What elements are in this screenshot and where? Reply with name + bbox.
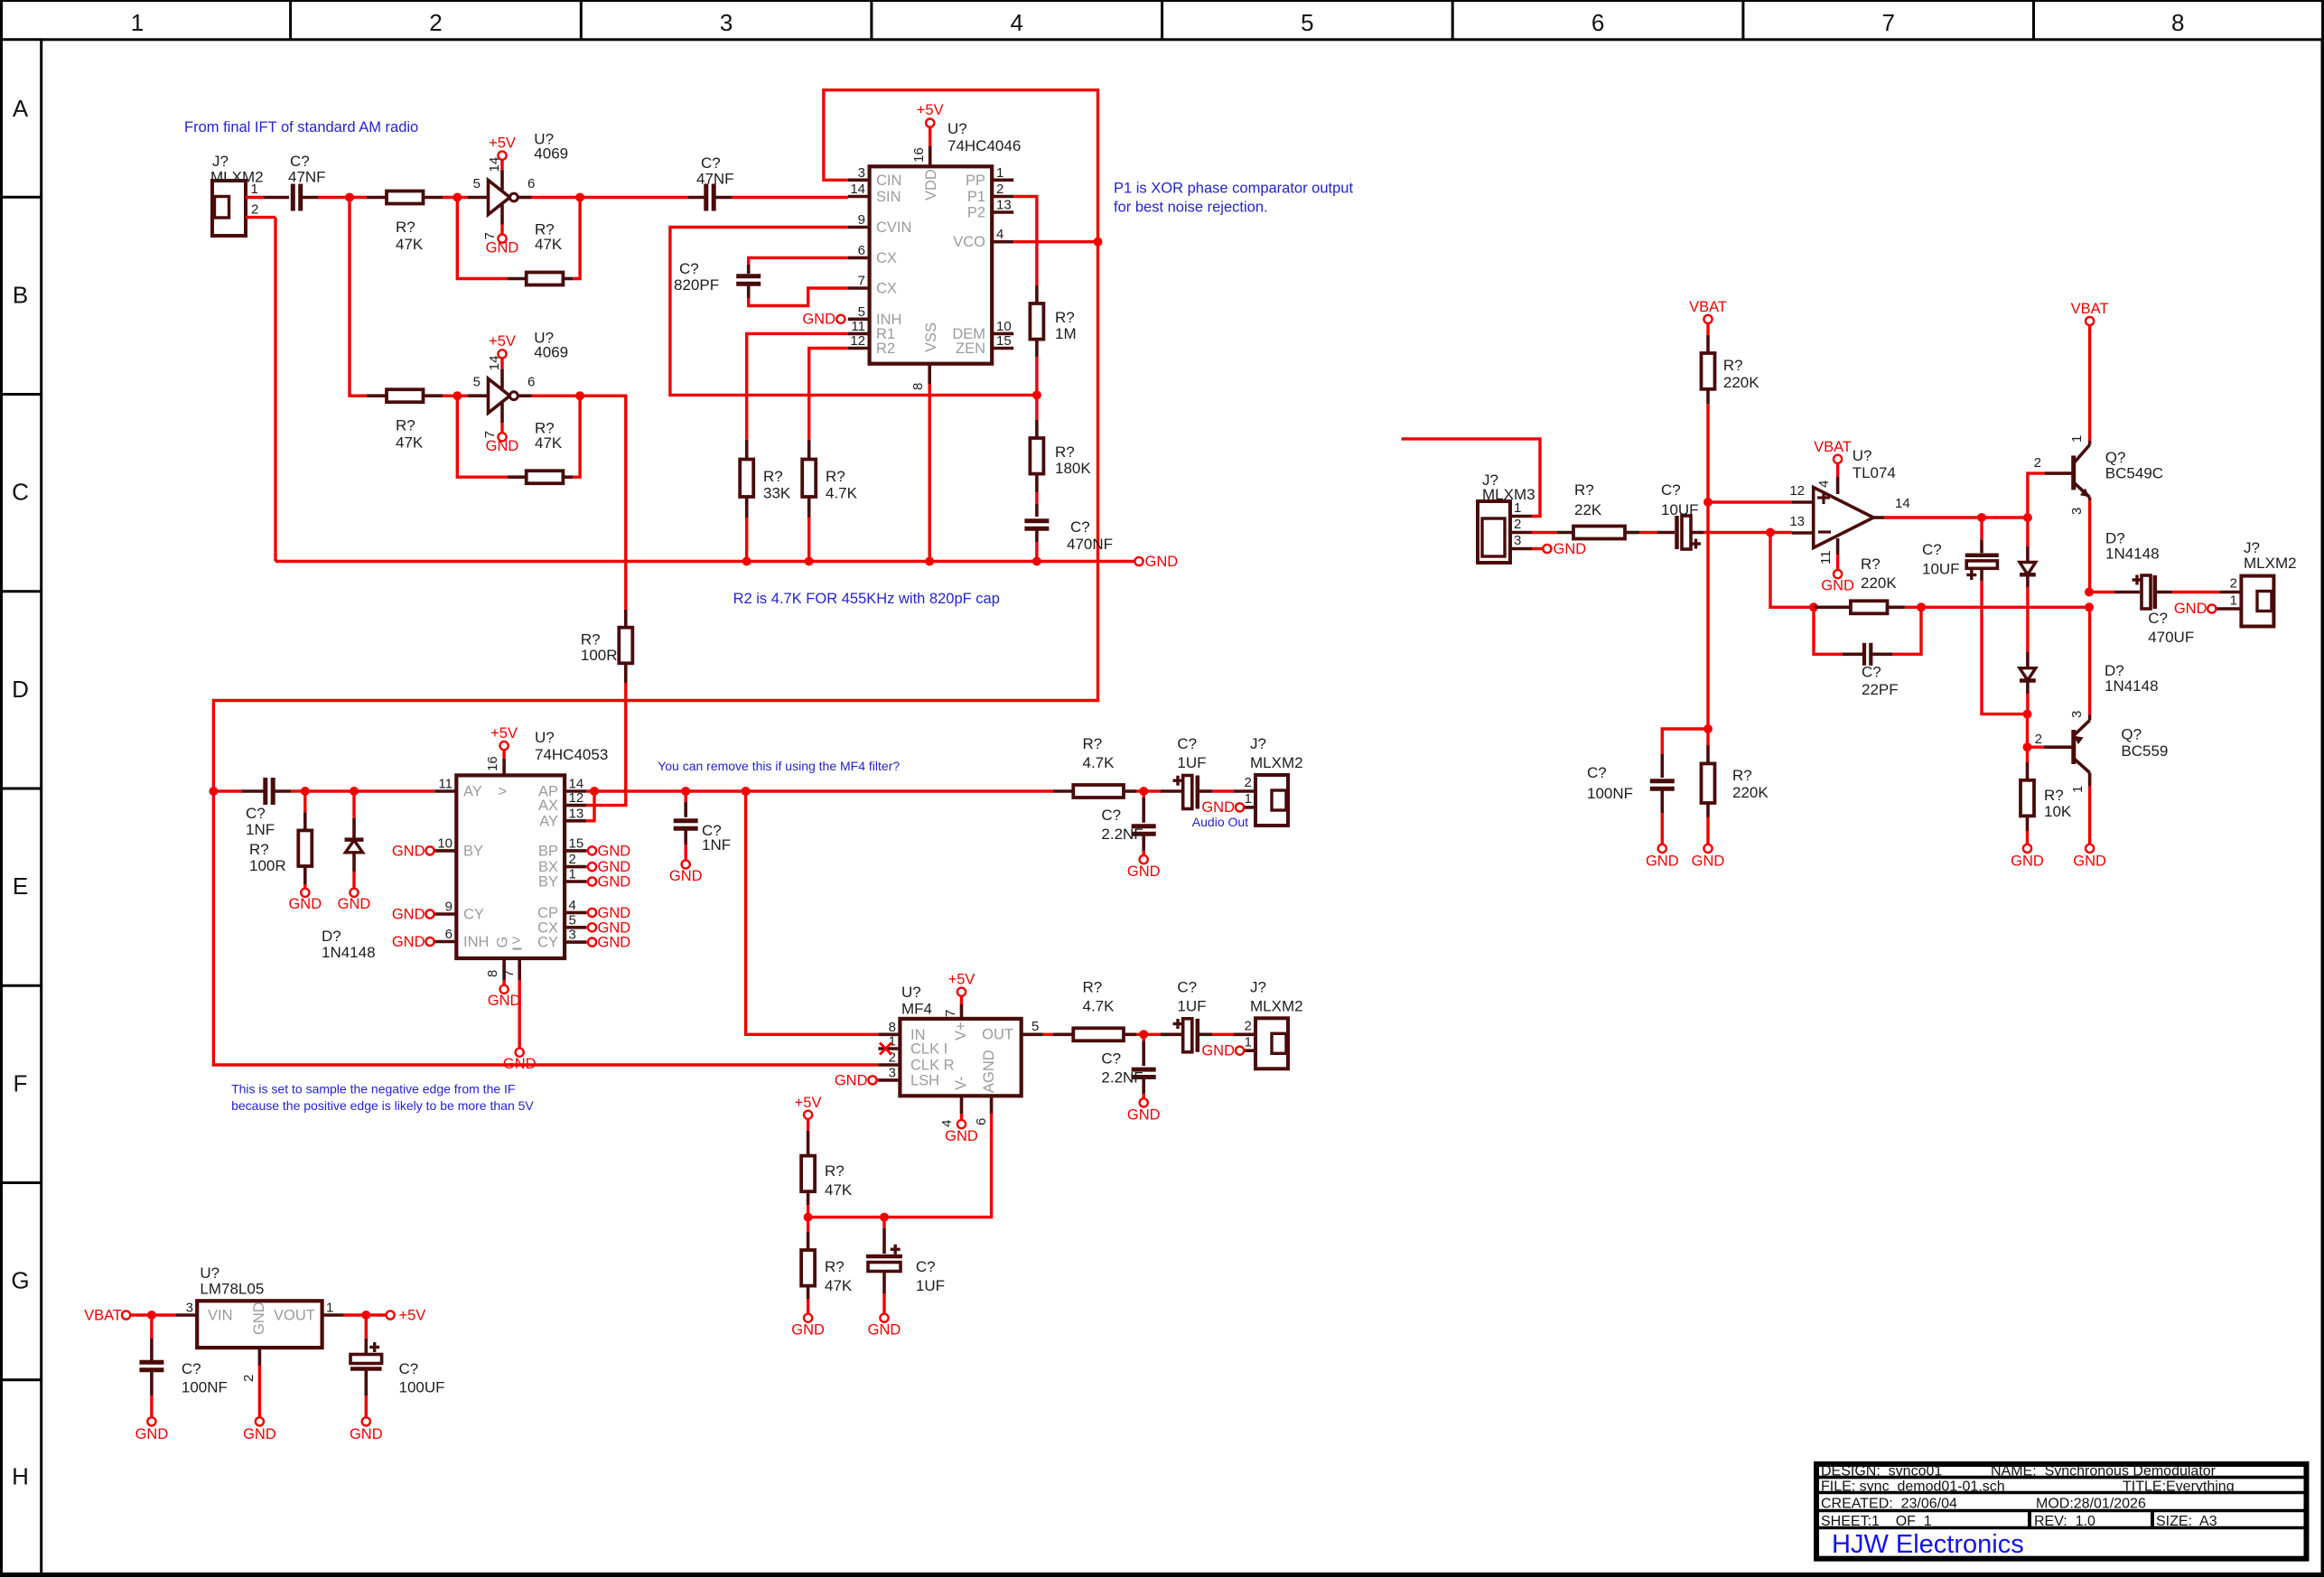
junction (805, 557, 814, 566)
ground port (rail) (1134, 554, 1178, 570)
svg-text:7: 7 (482, 431, 498, 438)
ground port (reg input cap) (135, 1395, 169, 1442)
wire VCO pin4 to vertical (1013, 240, 1097, 243)
svg-text:4069: 4069 (534, 145, 568, 163)
svg-text:GND: GND (835, 1072, 868, 1088)
capacitor C? 2.2NF (1101, 791, 1155, 851)
svg-text:GND: GND (802, 312, 835, 328)
resistor R? 180K (1030, 395, 1091, 492)
svg-text:22PF: 22PF (1862, 681, 1899, 698)
svg-text:R?: R? (825, 1258, 845, 1275)
junction (1032, 557, 1041, 566)
junction (361, 1311, 370, 1320)
wire R1 pin11 to R33K (747, 333, 848, 439)
svg-text:2: 2 (569, 852, 576, 867)
IC U? 74HC4046 (848, 120, 1021, 390)
capacitor C? 10UF (input coupling) (1657, 481, 1703, 549)
wire CIN loop (pin3 - top rail) (213, 90, 1097, 1065)
svg-text:180K: 180K (1055, 460, 1091, 477)
svg-text:2: 2 (2034, 455, 2041, 471)
svg-text:U?: U? (535, 729, 555, 746)
svg-text:47K: 47K (396, 236, 424, 253)
wire + ground port (reg GND pin2) (243, 1366, 276, 1442)
wire 4053 pin13 riser (586, 791, 594, 821)
svg-text:74HC4046: 74HC4046 (947, 137, 1021, 154)
svg-text:13: 13 (569, 806, 584, 821)
svg-text:2: 2 (429, 9, 442, 36)
svg-text:4.7K: 4.7K (826, 485, 858, 502)
svg-text:B: B (13, 281, 28, 308)
junction (453, 391, 462, 400)
svg-text:U?: U? (901, 984, 921, 1001)
junction (590, 787, 599, 796)
svg-text:NAME: Synchronous Demodulator: NAME: Synchronous Demodulator (1991, 1464, 2217, 1479)
svg-text:10UF: 10UF (1922, 561, 1960, 578)
wire Q1 base riser (2028, 473, 2045, 518)
svg-text:VBAT: VBAT (1814, 439, 1852, 455)
wire inverter1 output to C47NF#2 (580, 196, 688, 199)
junction (453, 193, 462, 202)
svg-text:ZEN: ZEN (956, 341, 985, 357)
capacitor C? 10UF (output filter) (1922, 518, 1999, 581)
svg-text:GND: GND (1201, 799, 1235, 816)
transistor Q? BC549C (2034, 435, 2163, 515)
svg-text:47K: 47K (535, 434, 563, 452)
svg-text:MLXM2: MLXM2 (1250, 754, 1303, 771)
ground port (Q2) (2073, 844, 2106, 870)
+5V power port (4053) (490, 725, 518, 759)
wire AY to 4053 pin11 (354, 789, 434, 792)
svg-text:CP: CP (537, 905, 558, 921)
svg-text:C?: C? (1101, 807, 1121, 824)
svg-text:G: G (495, 937, 511, 948)
svg-text:for best noise rejection.: for best noise rejection. (1114, 200, 1268, 216)
svg-text:33K: 33K (763, 485, 791, 502)
ground port (bias lower) (791, 1299, 825, 1339)
svg-text:3: 3 (858, 165, 865, 181)
junction (1917, 602, 1926, 611)
svg-text:5: 5 (1031, 1019, 1039, 1034)
svg-text:GND: GND (486, 438, 519, 454)
wire Q2 collector to output node (2088, 706, 2091, 715)
svg-text:3: 3 (2069, 508, 2085, 515)
svg-text:C?: C? (916, 1258, 936, 1275)
svg-text:H: H (12, 1462, 29, 1489)
svg-text:TITLE:Everything: TITLE:Everything (2123, 1479, 2235, 1494)
wire to series resistor (350, 196, 367, 199)
ground port (4053 right pin) (586, 919, 630, 936)
svg-text:3: 3 (1514, 533, 1521, 548)
svg-text:2.2NF: 2.2NF (1101, 1068, 1143, 1086)
svg-text:15: 15 (996, 333, 1012, 349)
svg-text:J?: J? (2244, 539, 2260, 556)
svg-text:6: 6 (858, 243, 865, 258)
ground port (MF4 pin4) (945, 1114, 978, 1144)
svg-text:5: 5 (858, 304, 865, 320)
wire MF4 OUT (1043, 1033, 1053, 1036)
svg-text:GND: GND (251, 1302, 267, 1335)
junction (681, 787, 690, 796)
ground port (divider cap) (1646, 813, 1679, 870)
wire Q1 emitter to output node (2088, 500, 2091, 593)
svg-text:C?: C? (1070, 518, 1090, 536)
svg-text:2: 2 (1244, 1018, 1251, 1033)
svg-text:OUT: OUT (982, 1027, 1013, 1043)
svg-text:2: 2 (2230, 576, 2237, 592)
svg-text:G: G (11, 1267, 29, 1294)
resistor R? 4.7K (R2) (802, 440, 857, 518)
wire AP to MF4 IN (746, 791, 879, 1034)
svg-text:BC559: BC559 (2121, 742, 2168, 760)
wire inverter output (532, 395, 581, 397)
svg-text:TL074: TL074 (1853, 464, 1896, 481)
svg-text:1UF: 1UF (1177, 754, 1206, 771)
wire C10UF to Q2 base node (1982, 581, 2028, 714)
resistor R? 100R (AY shunt) (249, 791, 312, 884)
resistor R? 220K (divider bottom) (1702, 729, 1769, 817)
svg-text:GND: GND (288, 896, 322, 912)
ground port (C1NF) (669, 844, 703, 884)
svg-text:4.7K: 4.7K (1083, 997, 1115, 1014)
junction (575, 193, 584, 202)
capacitor C? 47NF (coupling to 4046) (688, 154, 734, 211)
wire P1 pin2 to R1M (1013, 197, 1037, 286)
svg-text:C?: C? (246, 805, 266, 822)
svg-text:6: 6 (1591, 9, 1604, 36)
VBAT power port (divider) (1689, 299, 1727, 335)
svg-text:GND: GND (598, 905, 631, 921)
svg-text:4.7K: 4.7K (1083, 754, 1115, 771)
svg-text:C?: C? (1101, 1050, 1121, 1067)
junction (1032, 390, 1041, 399)
capacitor C? 2.2NF (1101, 1034, 1155, 1094)
ground port (4053 right pin) (586, 905, 630, 921)
svg-text:GND: GND (2174, 601, 2207, 617)
diode D? 1N4148 (upper) (2020, 518, 2160, 587)
wire resistor to inverter input (443, 196, 457, 199)
+5V power port (4046 VDD) (917, 102, 944, 146)
svg-text:2.2NF: 2.2NF (1101, 826, 1143, 843)
svg-text:F: F (14, 1069, 28, 1096)
svg-text:6: 6 (527, 176, 535, 191)
svg-text:MLXM2: MLXM2 (2244, 555, 2297, 572)
wire J pin2 to GND rail (274, 218, 276, 562)
svg-text:5: 5 (569, 912, 576, 928)
junction (742, 557, 751, 566)
svg-text:CLK R: CLK R (910, 1058, 955, 1074)
svg-text:C?: C? (399, 1360, 419, 1377)
svg-text:GND: GND (598, 843, 631, 859)
svg-text:GND: GND (338, 896, 371, 912)
svg-text:10: 10 (437, 835, 453, 851)
junction (1809, 602, 1818, 611)
svg-text:GND: GND (350, 1426, 383, 1442)
svg-text:47NF: 47NF (696, 171, 734, 188)
wire Q2 emitter to ground (2088, 787, 2091, 844)
svg-text:+5V: +5V (917, 102, 944, 118)
ground port (connector pin1) (1201, 1042, 1244, 1059)
IC U? MF4 (878, 984, 1042, 1127)
+5V power port (regulator output) (387, 1308, 426, 1324)
svg-text:8: 8 (485, 970, 500, 977)
svg-text:R?: R? (1732, 767, 1752, 784)
svg-text:SHEET:1 OF 1: SHEET:1 OF 1 (1821, 1514, 1932, 1529)
ground port (4053 right pin) (586, 935, 630, 951)
svg-text:C: C (12, 479, 29, 506)
junction (2023, 710, 2032, 719)
svg-text:This is set to sample the nega: This is set to sample the negative edge … (231, 1081, 515, 1096)
junction (742, 787, 751, 796)
svg-text:AGND: AGND (981, 1050, 997, 1093)
resistor R? 47K (feedback) (457, 198, 580, 285)
svg-text:C?: C? (2148, 610, 2168, 627)
wire diode1 to diode2 (2026, 587, 2029, 652)
svg-text:CY: CY (463, 907, 484, 923)
svg-text:2: 2 (996, 182, 1003, 197)
svg-text:J?: J? (1250, 735, 1266, 752)
svg-text:Q?: Q? (2121, 726, 2142, 743)
svg-text:11: 11 (851, 319, 865, 334)
resistor R? 4.7K (output) (1053, 978, 1136, 1040)
svg-text:R?: R? (1083, 735, 1103, 752)
svg-text:7: 7 (1881, 9, 1894, 36)
connector J? MLXM3 (1478, 471, 1535, 563)
svg-text:7: 7 (482, 232, 498, 239)
svg-text:VCO: VCO (953, 234, 985, 250)
svg-text:14: 14 (569, 777, 584, 792)
svg-text:MF4: MF4 (901, 1001, 932, 1018)
capacitor C? 22PF (feedback) (1814, 607, 1921, 698)
svg-text:GND: GND (868, 1322, 901, 1339)
svg-text:47NF: 47NF (288, 169, 326, 186)
svg-text:GND: GND (392, 843, 425, 859)
svg-text:13: 13 (996, 198, 1012, 213)
svg-text:HJW Electronics: HJW Electronics (1832, 1530, 2024, 1559)
svg-text:GND: GND (791, 1322, 825, 1339)
svg-text:12: 12 (1789, 483, 1805, 499)
wire resistor to inverter input (443, 395, 457, 397)
svg-text:AY: AY (539, 813, 558, 829)
resistor R? 47K (bias upper) (801, 1131, 853, 1205)
svg-text:CLK I: CLK I (910, 1041, 947, 1058)
svg-text:100R: 100R (249, 857, 286, 874)
svg-text:47K: 47K (825, 1181, 853, 1199)
svg-text:P1: P1 (967, 189, 985, 205)
svg-text:470NF: 470NF (1067, 536, 1113, 553)
svg-text:1: 1 (1245, 1034, 1252, 1050)
junction (209, 787, 218, 796)
svg-text:4: 4 (569, 898, 576, 913)
svg-text:1: 1 (996, 165, 1003, 181)
svg-text:VDD: VDD (923, 169, 939, 201)
ground port (connector pin1) (1201, 799, 1244, 816)
svg-text:DESIGN: synco01: DESIGN: synco01 (1821, 1464, 1942, 1479)
ground port (C2.2NF) (1127, 851, 1161, 880)
svg-text:GND: GND (243, 1426, 276, 1442)
svg-text:GND: GND (598, 859, 631, 875)
svg-text:REV: 1.0: REV: 1.0 (2034, 1514, 2095, 1529)
wire MLXM3 pin2 to R22K (1532, 531, 1557, 534)
svg-text:R?: R? (2044, 787, 2064, 804)
svg-text:GND: GND (486, 240, 519, 257)
svg-text:R?: R? (1723, 357, 1743, 374)
capacitor C? 1UF (output coupling) (1143, 735, 1212, 809)
inverter U? 4069 (457, 131, 568, 240)
junction (1139, 787, 1148, 796)
svg-text:GND: GND (1692, 854, 1725, 870)
svg-text:R?: R? (396, 219, 415, 236)
svg-text:CVIN: CVIN (876, 219, 911, 236)
wire R22K to C10UF (1639, 531, 1657, 534)
+5V power port (489, 333, 516, 369)
svg-text:5: 5 (473, 375, 481, 390)
junction (1139, 1030, 1148, 1039)
svg-text:47K: 47K (535, 236, 563, 253)
wire output node to Q2 (2088, 607, 2091, 705)
svg-text:47K: 47K (396, 434, 424, 452)
capacitor C? 47NF (input) (288, 153, 326, 211)
svg-text:14: 14 (850, 182, 865, 197)
svg-text:3: 3 (186, 1301, 193, 1316)
svg-text:VOUT: VOUT (274, 1308, 315, 1324)
svg-text:100R: 100R (581, 647, 618, 664)
svg-text:CIN: CIN (876, 173, 901, 189)
svg-text:2: 2 (2035, 732, 2042, 747)
wire inverter2 output to R100R (580, 396, 626, 610)
svg-text:12: 12 (569, 790, 584, 806)
svg-text:10: 10 (996, 319, 1012, 334)
svg-text:10UF: 10UF (1661, 501, 1699, 518)
svg-text:GND: GND (1201, 1042, 1235, 1059)
capacitor C? 1NF (AP shunt) (674, 791, 731, 854)
svg-text:R?: R? (1055, 443, 1075, 461)
ground port (4053 left pin) (392, 907, 434, 923)
svg-text:1M: 1M (1055, 325, 1077, 342)
junction (1094, 238, 1103, 247)
svg-text:C?: C? (679, 260, 699, 277)
capacitor C? 1NF (left) (213, 778, 291, 838)
ground port (4053 right pin) (586, 874, 630, 891)
ground port (4053 pin8) (488, 980, 521, 1009)
svg-text:GND: GND (1127, 863, 1161, 880)
svg-text:MLXM3: MLXM3 (1482, 486, 1535, 503)
svg-text:+5V: +5V (489, 333, 516, 350)
svg-text:GND: GND (1554, 541, 1587, 557)
resistor R? 4.7K (output) (1053, 735, 1136, 798)
svg-text:+5V: +5V (399, 1308, 426, 1324)
+5V power port (489, 135, 516, 171)
svg-text:MOD:28/01/2026: MOD:28/01/2026 (2036, 1496, 2146, 1511)
svg-text:U?: U? (200, 1264, 219, 1282)
svg-text:AY: AY (463, 784, 482, 800)
wire VBAT junction to VIN (152, 1313, 175, 1316)
svg-text:because the positive edge is l: because the positive edge is likely to b… (231, 1098, 534, 1113)
svg-text:V-: V- (953, 1076, 969, 1090)
svg-text:15: 15 (569, 835, 584, 851)
svg-text:R?: R? (1083, 978, 1103, 995)
ground port (bias cap) (868, 1293, 901, 1339)
wire diode2 to base node (2026, 694, 2029, 714)
svg-text:3: 3 (720, 9, 733, 36)
svg-text:>: > (499, 784, 508, 800)
resistor R? 47K (series) (367, 191, 443, 254)
svg-text:8: 8 (910, 383, 926, 390)
wire C47NF#2 to 4046 SIN (732, 196, 848, 199)
svg-text:CREATED: 23/06/04: CREATED: 23/06/04 (1821, 1496, 1957, 1511)
svg-text:GND: GND (1821, 578, 1854, 594)
ground port (4053 right pin) (586, 843, 630, 859)
svg-text:12: 12 (850, 333, 865, 349)
+5V power port (MF4) (948, 972, 975, 1005)
resistor R? 47K (series) (367, 389, 443, 452)
svg-text:4: 4 (996, 227, 1003, 242)
svg-text:1NF: 1NF (246, 821, 275, 838)
svg-text:C?: C? (290, 153, 310, 170)
title block (1816, 1464, 2307, 1560)
svg-text:13: 13 (1789, 514, 1805, 529)
IC U? LM78L05 (175, 1264, 343, 1382)
svg-text:4: 4 (939, 1120, 955, 1127)
svg-text:1: 1 (569, 867, 576, 882)
resistor R? 22K (1557, 481, 1639, 539)
wire AP output rail (586, 789, 1053, 792)
svg-text:1: 1 (1245, 791, 1252, 807)
svg-text:+5V: +5V (948, 972, 975, 988)
resistor R? 220K (divider top) (1702, 335, 1760, 404)
svg-text:11: 11 (1818, 550, 1834, 565)
svg-text:>: > (512, 933, 521, 949)
capacitor C? 100NF (divider) (1587, 729, 1708, 813)
svg-text:R?: R? (396, 417, 415, 434)
junction (345, 193, 354, 202)
svg-text:1N4148: 1N4148 (2105, 546, 2160, 563)
wire MLXM3 pin1 stub (1402, 439, 1540, 517)
svg-text:GND: GND (1145, 554, 1179, 570)
svg-text:220K: 220K (1732, 784, 1769, 801)
svg-text:6: 6 (445, 927, 453, 942)
wire inverter output (532, 196, 581, 199)
wire feedback rail to output node (1921, 606, 2089, 609)
svg-text:8: 8 (2171, 9, 2184, 36)
svg-text:J?: J? (1250, 978, 1266, 995)
svg-text:3: 3 (2069, 711, 2085, 718)
svg-text:+5V: +5V (795, 1095, 822, 1111)
wire AY junction to diode (305, 789, 354, 792)
resistor R? 47K (bias lower) (801, 1218, 853, 1299)
svg-text:GND: GND (392, 934, 425, 950)
no-connect X (CLK I) (880, 1043, 891, 1055)
wire divider to +input (1706, 404, 1709, 502)
svg-text:BY: BY (463, 843, 483, 859)
svg-text:LM78L05: LM78L05 (200, 1281, 264, 1298)
svg-text:SIN: SIN (876, 189, 901, 205)
op-amp U? TL074 (1789, 447, 1909, 565)
svg-text:R?: R? (1574, 481, 1594, 499)
wire junction down to row2 (350, 198, 367, 397)
junction (1703, 724, 1713, 733)
wire CVIN pin9 loop (670, 228, 1037, 396)
junction (575, 391, 584, 400)
svg-text:LSH: LSH (910, 1072, 939, 1088)
svg-text:AX: AX (538, 798, 558, 814)
wire +input (1708, 500, 1792, 503)
svg-text:1UF: 1UF (916, 1277, 945, 1294)
svg-text:GND: GND (135, 1426, 169, 1442)
capacitor C? 470UF (2089, 575, 2194, 647)
svg-text:7: 7 (858, 274, 865, 289)
svg-text:GND: GND (598, 919, 631, 936)
svg-text:PP: PP (966, 173, 985, 189)
